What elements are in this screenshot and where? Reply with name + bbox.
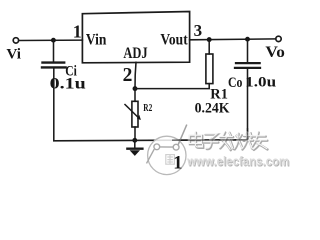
- svg-text:www.elecfans.com: www.elecfans.com: [186, 154, 289, 169]
- capacitor Ci lead lower / left rail: [53, 68, 55, 141]
- resistor R2 lead upper: [134, 89, 136, 102]
- capacitor Co lead upper: [247, 39, 249, 62]
- terminal Vi: [13, 38, 18, 43]
- node ground junction: [132, 138, 137, 143]
- wire ADJ node to R1 bottom: [135, 84, 209, 89]
- svg-text:0.24K: 0.24K: [195, 100, 230, 116]
- regulator U1 box: [82, 12, 189, 63]
- svg-text:3: 3: [194, 21, 203, 40]
- svg-text:0.1u: 0.1u: [50, 75, 86, 92]
- node Co bottom: [245, 138, 249, 142]
- watermark chars white halo: [190, 133, 268, 151]
- capacitor Ci lead upper: [53, 40, 55, 62]
- watermark logo circle: [147, 125, 187, 175]
- ground stem: [134, 140, 136, 148]
- ground triangle: [130, 150, 140, 156]
- svg-text:2: 2: [123, 65, 133, 86]
- resistor R2 arrow head: [137, 115, 141, 120]
- node input/Ci junction: [51, 38, 56, 43]
- svg-text:Vin: Vin: [86, 31, 107, 48]
- wire bottom rail over watermark: [172, 139, 248, 141]
- svg-text:Vout: Vout: [160, 31, 188, 48]
- ground bar: [127, 147, 142, 149]
- resistor R1 body: [206, 54, 213, 84]
- wire Vi to Vin pin 1: [19, 39, 83, 41]
- wire Vout pin 3 to Vo: [190, 38, 276, 41]
- resistor R2 body: [132, 101, 138, 127]
- pin 2 wire from ADJ: [135, 62, 136, 88]
- node ADJ junction: [133, 86, 138, 91]
- watermark logo bead right: [173, 144, 179, 150]
- svg-text:Co: Co: [228, 75, 242, 91]
- bottom rail wire: [54, 140, 248, 141]
- capacitor Co lead lower: [247, 69, 249, 140]
- capacitor Ci plates: [43, 61, 65, 63]
- terminal Vo: [276, 36, 281, 41]
- capacitor Co plates: [236, 62, 260, 64]
- capacitor Co lead over watermark: [247, 128, 249, 140]
- watermark logo link line right: [178, 125, 187, 145]
- svg-text:1: 1: [173, 153, 182, 173]
- watermark logo link line left: [147, 149, 155, 163]
- watermark chars white bevel: [189, 132, 266, 150]
- svg-text:R2: R2: [143, 103, 152, 114]
- svg-text:Vo: Vo: [265, 44, 285, 61]
- resistor R1 lead upper: [208, 40, 210, 54]
- svg-text:1: 1: [73, 22, 82, 42]
- resistor R2 arrow: [125, 105, 140, 119]
- watermark chars gray body: [190, 133, 268, 151]
- watermark logo bead left: [154, 144, 160, 150]
- caption figure glyph (faded): [166, 155, 175, 165]
- watermark logo link line mid: [160, 146, 174, 148]
- node R1 top junction: [207, 37, 212, 42]
- node Co junction: [245, 37, 250, 42]
- svg-text:ADJ: ADJ: [123, 45, 147, 62]
- svg-text:1.0u: 1.0u: [245, 74, 276, 90]
- resistor R2 lead lower: [134, 127, 136, 141]
- svg-text:Vi: Vi: [6, 47, 21, 63]
